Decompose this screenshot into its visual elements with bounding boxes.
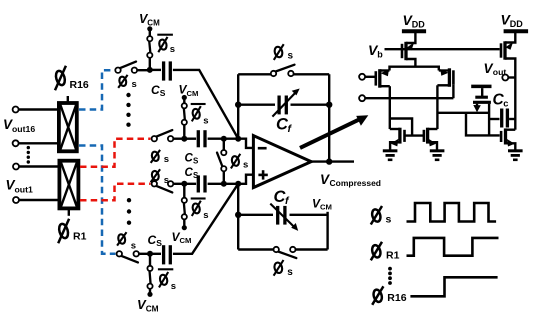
terminal dot VCM branch1 bbox=[147, 26, 152, 31]
svg-text:R1: R1 bbox=[386, 249, 400, 261]
node dot feedback bottom left bbox=[235, 212, 241, 218]
svg-text:CM: CM bbox=[320, 202, 332, 211]
wire red dashed chopper R1 bottom output to branch3 switch bbox=[80, 184, 151, 201]
switch phi-s branch1 bbox=[115, 62, 137, 73]
label phi-R1 timing bbox=[371, 242, 400, 261]
wire Vb to gates of M1 and M2 bbox=[385, 48, 500, 50]
svg-text:DD: DD bbox=[510, 19, 523, 29]
wire feedback bottom right vertical bbox=[326, 212, 328, 250]
arrow to transistor schematic bbox=[300, 115, 368, 148]
svg-text:C: C bbox=[148, 233, 157, 247]
svg-text:S: S bbox=[160, 88, 166, 98]
wire capacitor CS branch1 to inverting rail (diagonal) bbox=[173, 70, 238, 139]
label Vb bbox=[368, 42, 383, 59]
svg-text:f: f bbox=[285, 195, 290, 207]
node Vout16 label bbox=[3, 117, 35, 134]
ellipsis dots between branch1 and branch2 bbox=[126, 93, 130, 127]
label phi R1 bbox=[58, 219, 87, 243]
wire junction to capacitor CS branch1 bbox=[150, 69, 161, 71]
wire switch phibar-s branch3 down bbox=[183, 184, 185, 199]
chopper R16 bbox=[59, 96, 77, 151]
svg-text:s: s bbox=[203, 210, 208, 221]
wire blue dashed chopper R16 bottom output to branch4 switch bbox=[79, 146, 116, 254]
label phi-s branch3 bbox=[151, 169, 169, 186]
wire Vout1+ to chopper R1 bbox=[19, 165, 59, 167]
chopper R1 bbox=[59, 161, 78, 216]
wire red dashed chopper R1 top output to branch2 switch bbox=[80, 139, 151, 167]
power rail VDD right bbox=[504, 29, 528, 33]
wire M4 drain down to first-stage output node bbox=[436, 85, 438, 129]
ellipsis dots between input terminals bbox=[27, 146, 30, 164]
wire Vout terminal to vertical bbox=[509, 76, 516, 78]
terminal dot VCM branch4 bbox=[147, 292, 152, 297]
label phi-s bottom feedback bbox=[273, 260, 293, 278]
wire gate interconnect M5-M6 bbox=[405, 134, 424, 136]
junction branch1 bbox=[147, 67, 153, 73]
wire Vout16- to chopper R16 bbox=[19, 142, 58, 144]
label phi-s top feedback bbox=[273, 44, 293, 61]
capacitor Cf bottom (variable) bbox=[270, 204, 298, 231]
label phi-s branch1 bbox=[118, 75, 137, 90]
svg-text:s: s bbox=[132, 79, 137, 90]
label phi-s shorting bbox=[231, 154, 249, 171]
waveform phi-R16 bbox=[410, 277, 497, 296]
wire op-amp output bbox=[311, 160, 354, 162]
svg-text:CM: CM bbox=[146, 303, 159, 313]
switch phi-s branch3 bbox=[152, 181, 174, 192]
wire VCM to switch phibar-s branch1 bbox=[149, 29, 151, 37]
svg-text:CM: CM bbox=[180, 236, 192, 245]
svg-text:c: c bbox=[503, 98, 508, 108]
terminal input+ bbox=[359, 74, 365, 80]
label VDD right bbox=[501, 12, 524, 29]
capacitor CS branch2 bbox=[198, 130, 205, 147]
ground M6 bbox=[430, 151, 445, 160]
switch phi-s bottom feedback bbox=[274, 247, 297, 258]
node dot non-inverting rail at shorting switch bbox=[221, 181, 227, 187]
switch phibar-s branch1 bbox=[147, 36, 152, 58]
wire blue dashed chopper R16 top output to branch1 switch bbox=[79, 70, 113, 109]
wire input+ to M3 gate bbox=[365, 76, 374, 78]
node VCompressed label bbox=[320, 172, 381, 188]
node VCM branch2 label bbox=[179, 83, 199, 98]
svg-text:b: b bbox=[377, 49, 383, 59]
label phi-s branch2 bbox=[151, 150, 169, 165]
svg-text:out16: out16 bbox=[12, 124, 35, 134]
transistor M4 (PMOS diff pair right, mirrored) bbox=[437, 68, 453, 98]
wire capacitor CS branch4 to non-inverting rail (diagonal) bbox=[173, 184, 238, 254]
ellipsis dots between branch3 and branch4 bbox=[127, 198, 131, 225]
label phibar-s branch1 bbox=[157, 35, 175, 55]
wire switch rail bottom feedback bbox=[238, 248, 327, 250]
svg-text:s: s bbox=[131, 241, 136, 252]
terminal Vout1- bbox=[13, 197, 19, 203]
MOS capacitor (gate cap) bbox=[471, 86, 491, 135]
svg-text:s: s bbox=[386, 214, 392, 226]
label phi R16 bbox=[54, 66, 88, 91]
node dot output bbox=[326, 158, 332, 164]
wire junction to capacitor CS branch4 bbox=[150, 253, 161, 255]
svg-text:S: S bbox=[156, 238, 162, 248]
svg-text:C: C bbox=[151, 83, 160, 97]
transistor M1 (PMOS tail source, Vb) bbox=[402, 33, 415, 67]
svg-text:Compressed: Compressed bbox=[330, 178, 382, 188]
wire diode connection jog M5 bbox=[390, 119, 412, 136]
node dot feedback top right bbox=[326, 102, 332, 108]
terminal Vout1+ bbox=[13, 164, 19, 170]
node dot feedback top left bbox=[235, 102, 241, 108]
label CS branch4 bbox=[148, 233, 163, 248]
capacitor CS branch3 bbox=[198, 175, 205, 192]
wire capacitor rail bottom feedback bbox=[238, 214, 327, 216]
label phibar-s branch3 bbox=[191, 199, 209, 222]
label Vout bbox=[484, 61, 507, 77]
wire non-inverting rail with jog into op-amp bbox=[208, 175, 254, 184]
terminal dot VCM branch3 bbox=[182, 225, 187, 230]
wire first-stage output node to MOS cap leg bbox=[437, 112, 489, 114]
transistor M6 (NMOS mirror right) bbox=[424, 128, 438, 151]
junction branch4 bbox=[147, 251, 153, 257]
ground M7 bbox=[508, 151, 523, 160]
svg-text:s: s bbox=[171, 281, 176, 292]
junction branch3 bbox=[181, 181, 187, 187]
wire junction to switch phibar-s branch4 bbox=[149, 254, 151, 266]
wire switch to junction branch2 bbox=[173, 137, 184, 139]
wire switch to junction bbox=[137, 69, 150, 71]
wire switch to junction branch3 bbox=[173, 183, 184, 185]
wire VCM to switch phibar-s branch2 bbox=[183, 98, 185, 105]
svg-text:s: s bbox=[170, 44, 175, 55]
wire switch to junction branch4 bbox=[139, 253, 150, 255]
svg-text:CM: CM bbox=[187, 89, 199, 98]
svg-text:R16: R16 bbox=[70, 79, 89, 91]
svg-text:R1: R1 bbox=[73, 231, 87, 243]
wire Cc to Vout vertical bbox=[509, 118, 515, 120]
capacitor Cf top (variable) bbox=[272, 89, 299, 117]
wire switch to junction branch1 bbox=[149, 58, 151, 70]
svg-text:CM: CM bbox=[147, 19, 160, 28]
op-amp U1 bbox=[253, 136, 311, 188]
svg-text:out1: out1 bbox=[15, 184, 34, 194]
svg-text:out: out bbox=[493, 67, 507, 77]
wire feedback top left vertical bbox=[237, 74, 239, 138]
label phi-R16 timing bbox=[372, 286, 407, 305]
wire switch rail top feedback bbox=[238, 73, 329, 75]
label phi-s branch4 bbox=[117, 232, 136, 252]
svg-text:f: f bbox=[288, 123, 293, 135]
node VCM branch4 label bbox=[137, 297, 159, 314]
wire M3 drain down to M5 bbox=[389, 86, 391, 129]
transistor M5 (NMOS mirror left, mirrored) bbox=[390, 128, 405, 151]
svg-text:s: s bbox=[287, 267, 293, 278]
svg-text:R16: R16 bbox=[387, 292, 406, 304]
svg-text:s: s bbox=[164, 154, 169, 165]
terminal Vout16+ bbox=[13, 107, 19, 113]
switch phibar-s branch4 bbox=[147, 266, 152, 289]
power rail VDD left bbox=[402, 29, 426, 33]
svg-text:S: S bbox=[193, 156, 199, 165]
label CS branch2 bbox=[185, 152, 200, 165]
capacitor CS branch1 bbox=[164, 61, 171, 80]
wire capacitor rail top feedback bbox=[238, 103, 329, 105]
wire MOS cap leg to capacitor Cc bbox=[489, 118, 499, 120]
label Cf bottom bbox=[274, 188, 291, 207]
wire switch to junction branch2 bbox=[183, 125, 185, 139]
svg-text:V: V bbox=[320, 172, 330, 187]
ellipsis dots timing bbox=[388, 267, 392, 285]
terminal input- bbox=[359, 95, 365, 101]
terminal Vout16- bbox=[13, 140, 19, 146]
svg-text:s: s bbox=[288, 51, 294, 62]
label VDD left bbox=[403, 12, 426, 29]
switch phi-s branch2 bbox=[152, 130, 174, 141]
svg-text:S: S bbox=[193, 171, 199, 180]
transistor M3 (PMOS diff pair left) bbox=[376, 69, 390, 88]
wire junction to capacitor CS branch2 bbox=[184, 137, 196, 139]
wire Vout vertical to M7 drain bbox=[514, 78, 516, 130]
svg-text:s: s bbox=[203, 115, 208, 126]
svg-text:DD: DD bbox=[412, 19, 425, 29]
terminal dot VCM branch2 bbox=[182, 95, 187, 100]
switch phibar-s branch3 bbox=[182, 198, 187, 220]
node VCM branch3 label bbox=[172, 230, 192, 245]
node Vout1 label bbox=[6, 178, 34, 195]
wire to VCM terminal branch4 bbox=[149, 289, 151, 295]
capacitor Cc bbox=[502, 109, 508, 128]
label VCM bottom feedback bbox=[312, 196, 332, 211]
svg-text:s: s bbox=[164, 175, 169, 186]
wire gate feed to M7 bbox=[466, 113, 500, 136]
wire Vout1- to chopper R1 bbox=[19, 199, 59, 201]
switch phi-s branch4 bbox=[117, 251, 139, 262]
wire input- to M4 gate bbox=[365, 97, 453, 99]
transistor M7 (NMOS output stage) bbox=[501, 128, 515, 150]
switch phi-s shorting (between rails) bbox=[217, 139, 226, 184]
terminal Vout bbox=[502, 75, 508, 81]
wire Vout16+ to chopper R16 bbox=[19, 108, 58, 110]
transistor M2 (PMOS output stage) bbox=[501, 33, 515, 78]
node dot inverting rail at shorting switch bbox=[221, 136, 227, 142]
switch phi-s top feedback bbox=[271, 65, 295, 77]
label Cc bbox=[493, 92, 509, 109]
switch phibar-s branch2 bbox=[182, 103, 187, 125]
node dot non-inverting rail at feedback bbox=[235, 181, 241, 187]
waveform phi-R1 bbox=[407, 238, 499, 256]
label phibar-s branch2 bbox=[191, 104, 209, 126]
wire inverting rail with jog into op-amp bbox=[208, 139, 254, 148]
label CS branch3 bbox=[185, 167, 200, 180]
label phi-s timing bbox=[371, 206, 392, 226]
capacitor CS branch4 bbox=[164, 245, 171, 264]
ground M5 bbox=[383, 151, 398, 160]
label Cf top bbox=[276, 116, 293, 135]
wire feedback top right vertical bbox=[328, 74, 330, 161]
svg-text:s: s bbox=[243, 159, 248, 170]
node dot inverting rail at feedback bbox=[235, 136, 241, 142]
label phibar-s branch4 bbox=[158, 269, 176, 292]
wire feedback bottom left vertical bbox=[237, 184, 239, 250]
junction branch2 bbox=[181, 136, 187, 142]
wire to VCM terminal branch3 bbox=[183, 219, 185, 228]
wire tail rail to diff pair sources bbox=[390, 67, 439, 71]
waveform phi-s bbox=[407, 203, 497, 222]
node VCM branch1 label bbox=[139, 12, 160, 28]
label CS branch1 bbox=[151, 83, 166, 98]
wire junction to capacitor CS branch3 bbox=[184, 183, 196, 185]
